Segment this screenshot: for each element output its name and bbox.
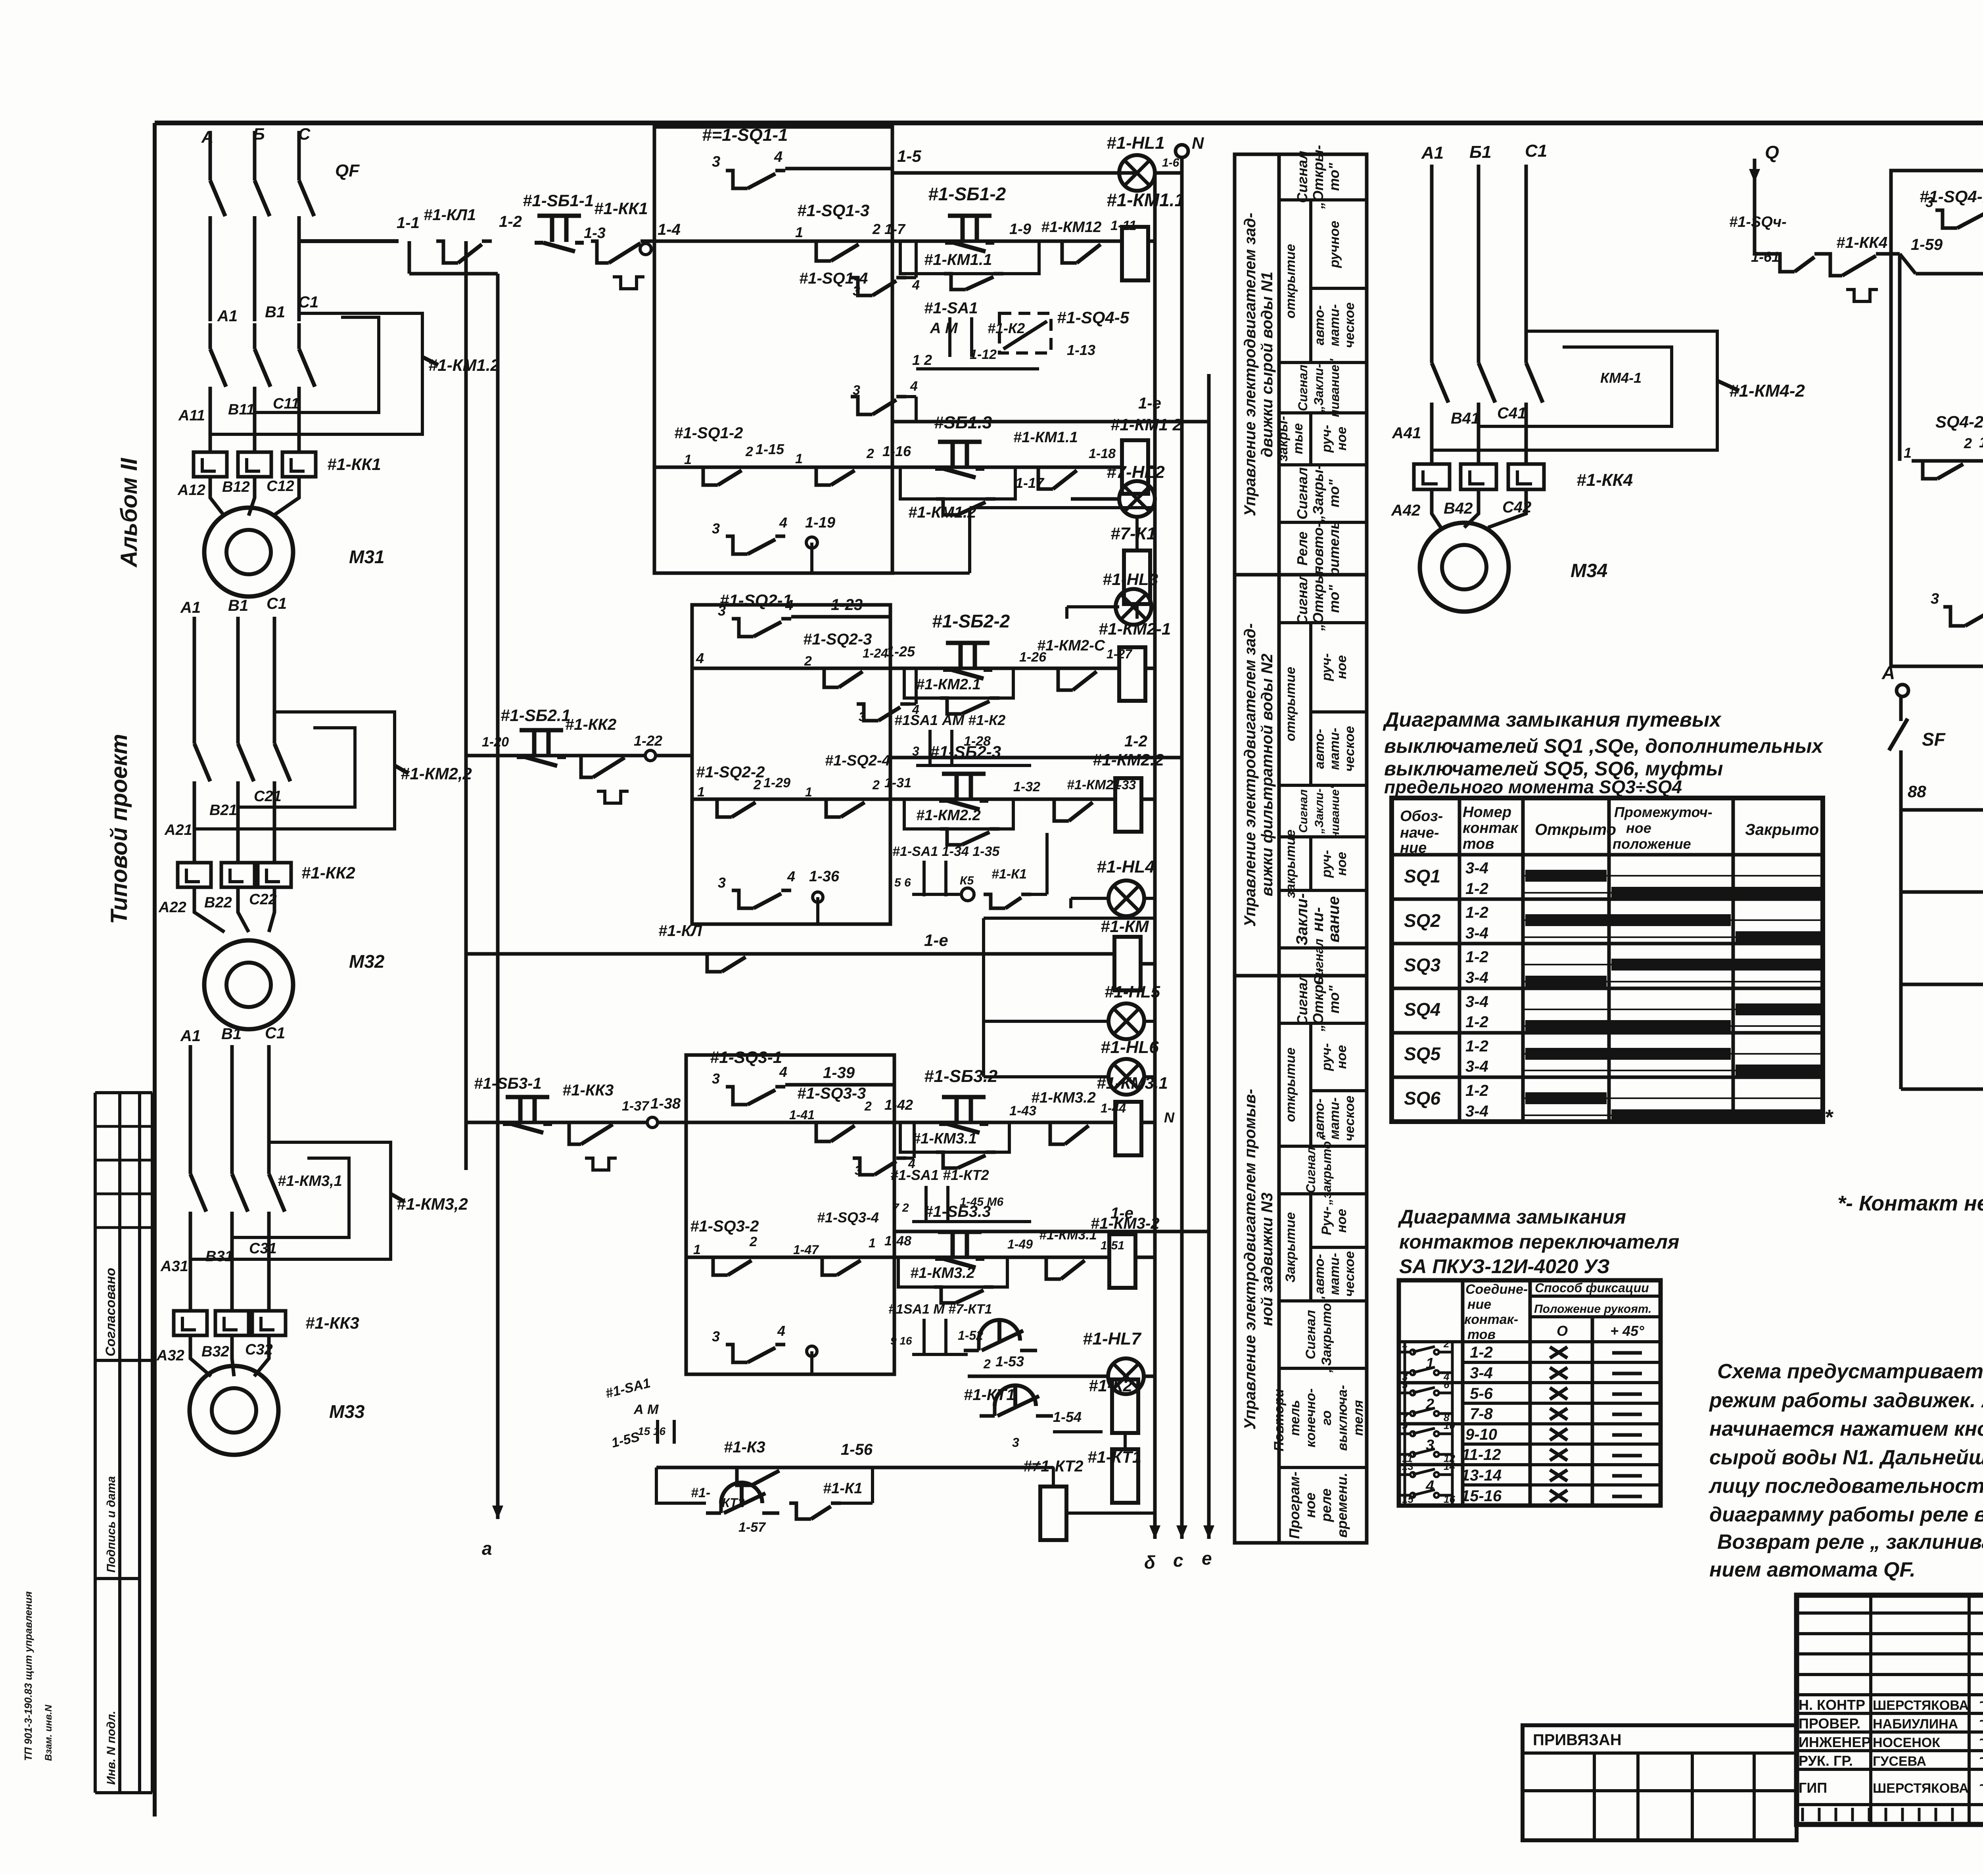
block N3 outer box: [686, 1055, 894, 1374]
svg-text:С1: С1: [267, 595, 287, 612]
svg-text:3-4: 3-4: [1470, 1364, 1493, 1382]
SA row 5-6: [1463, 1402, 1661, 1405]
lamp HL6: [1108, 1059, 1144, 1095]
svg-text:КМ4-1: КМ4-1: [1600, 370, 1642, 386]
contact SQ1-4 row: [851, 397, 873, 414]
svg-text:Соедине-: Соедине-: [1465, 1282, 1528, 1297]
svg-text:#1-КМ3.1: #1-КМ3.1: [1039, 1228, 1097, 1243]
svg-text:#1-КК1: #1-КК1: [327, 455, 381, 474]
contact KM repeater: [466, 952, 1116, 956]
svg-text:*- Контакт не используется: *- Контакт не используется: [1837, 1191, 1983, 1215]
Q feeder arrow: [1753, 159, 1757, 182]
SA row 1-2: [1463, 1361, 1661, 1364]
svg-text:то": то": [1326, 479, 1342, 508]
svg-text:С22: С22: [249, 891, 277, 908]
common line P1: [1901, 983, 1983, 986]
svg-text:*: *: [1824, 1105, 1834, 1129]
svg-text:В1: В1: [265, 303, 285, 321]
svg-text:1-19: 1-19: [805, 514, 835, 531]
svg-text:4: 4: [777, 1323, 785, 1339]
svg-text:В32: В32: [201, 1343, 229, 1360]
svg-text:РУК. ГР.: РУК. ГР.: [1799, 1753, 1853, 1769]
svg-text:Диаграмма замыкания: Диаграмма замыкания: [1398, 1206, 1626, 1228]
annotation block divider: [1235, 974, 1367, 978]
SQ bar: [1736, 931, 1820, 943]
svg-text:выключа-: выключа-: [1335, 1385, 1350, 1451]
svg-text:#1-К1: #1-К1: [823, 1480, 862, 1497]
svg-text:SQ3: SQ3: [1404, 955, 1440, 975]
svg-text:контактов переключателя: контактов переключателя: [1399, 1231, 1679, 1253]
wire left rail: [496, 274, 500, 1519]
rung N4 to node 1-59: [1900, 254, 1916, 274]
annotation cell: [1279, 946, 1367, 950]
push button SB2-3: [942, 772, 986, 776]
svg-text:#1-КТ1: #1-КТ1: [964, 1386, 1015, 1404]
svg-text:А: А: [1881, 662, 1895, 683]
svg-text:+ 45°: + 45°: [1610, 1323, 1644, 1339]
svg-text:#1-SQ2-4: #1-SQ2-4: [825, 752, 890, 769]
svg-text:10: 10: [1444, 1419, 1455, 1431]
coil KT1: [1112, 1449, 1138, 1503]
SQ row SQ1: [1392, 898, 1823, 901]
svg-text:9 16: 9 16: [890, 1335, 912, 1347]
svg-text:3: 3: [859, 710, 866, 724]
wire rung lamp HL7: [968, 1375, 1107, 1378]
annotation cell: [1279, 1192, 1367, 1195]
svg-text:1-49: 1-49: [1007, 1237, 1033, 1251]
svg-text:7 2: 7 2: [892, 1201, 909, 1214]
svg-text:руч-: руч-: [1319, 653, 1334, 681]
svg-text:6: 6: [1444, 1379, 1450, 1391]
svg-text:2 1-7: 2 1-7: [872, 221, 906, 237]
svg-text:С1: С1: [265, 1024, 285, 1042]
svg-text:13: 13: [1402, 1460, 1413, 1472]
svg-text:Возврат реле „ заклинивание ": Возврат реле „ заклинивание " осуществля…: [1717, 1531, 1983, 1554]
svg-text:2: 2: [866, 446, 874, 461]
svg-text:„Откры-: „Откры-: [1310, 145, 1326, 209]
svg-text:1-12: 1-12: [970, 347, 997, 362]
svg-text:1-9: 1-9: [1009, 221, 1031, 238]
SQ row SQ2: [1392, 942, 1823, 946]
svg-text:М32: М32: [349, 951, 385, 972]
svg-text:3: 3: [1012, 1435, 1019, 1450]
motor M31 leads: [210, 477, 224, 516]
svg-text:#1-SQ3-2: #1-SQ3-2: [690, 1218, 759, 1235]
svg-text:С1: С1: [298, 293, 318, 311]
annotation cell: [1279, 573, 1367, 576]
svg-text:SА ПКУЗ-12И-4020 УЗ: SА ПКУЗ-12И-4020 УЗ: [1399, 1255, 1610, 1278]
annotation cell: [1279, 1022, 1367, 1025]
svg-text:2: 2: [864, 1099, 872, 1113]
contact K3: [730, 1467, 752, 1485]
svg-text:1-57: 1-57: [738, 1520, 766, 1535]
svg-text:#1-КМ2.2: #1-КМ2.2: [916, 807, 981, 824]
svg-text:1-18: 1-18: [1089, 446, 1116, 461]
svg-text:3: 3: [855, 1163, 862, 1178]
svg-text:М34: М34: [1571, 560, 1607, 581]
annotation split cell: [1309, 623, 1312, 785]
svg-text:В21: В21: [209, 802, 237, 819]
rung N1-1 wire: [654, 240, 658, 243]
sheet frame top border: [155, 121, 1983, 125]
coil KM3-2: [1109, 1234, 1135, 1288]
SQ row SQ6: [1392, 1120, 1823, 1124]
svg-text:9-10: 9-10: [1465, 1426, 1497, 1443]
rung N2-1 wire: [692, 667, 1120, 670]
coil KM: [1114, 937, 1141, 990]
svg-text:О: О: [1557, 1323, 1568, 1339]
contact KT1 time: [995, 1385, 1036, 1406]
svg-text:С31: С31: [249, 1240, 277, 1257]
svg-text:ритель: ритель: [1326, 521, 1342, 577]
svg-text:1-36: 1-36: [809, 868, 840, 885]
svg-text:#1-КМ2-С: #1-КМ2-С: [1037, 637, 1105, 654]
svg-text:выключателей SQ1 ,SQе, дополни: выключателей SQ1 ,SQе, дополнительных: [1384, 735, 1824, 757]
svg-text:SQ1: SQ1: [1404, 866, 1440, 886]
svg-text:#1-SА1 #1-КТ2: #1-SА1 #1-КТ2: [890, 1167, 989, 1183]
svg-text:лицу последовательности раб: лицу последовательности работы задвижек …: [1708, 1475, 1983, 1498]
svg-text:1-2: 1-2: [1465, 1082, 1488, 1099]
svg-text:#1-КМ2.2: #1-КМ2.2: [1093, 750, 1164, 769]
svg-text:#1-SQ1-4: #1-SQ1-4: [799, 270, 868, 287]
phase wires branch 3: [189, 1045, 192, 1174]
bottom row N4: [1943, 607, 1965, 626]
contact SQ1-3b: [851, 278, 873, 295]
svg-text:#1-КМ3,1: #1-КМ3,1: [278, 1173, 342, 1189]
svg-text:#SБ1.3: #SБ1.3: [934, 413, 992, 432]
motor M33: [190, 1366, 278, 1455]
svg-text:#1-HL4: #1-HL4: [1097, 857, 1155, 877]
svg-text:4: 4: [910, 379, 918, 394]
rung N3-2 wire: [686, 1256, 1110, 1259]
svg-text:Закрыто: Закрыто: [1745, 821, 1819, 838]
svg-text:контак: контак: [1463, 820, 1519, 836]
svg-text:ческое: ческое: [1342, 303, 1357, 348]
svg-text:Сигнал: Сигнал: [1297, 789, 1310, 833]
dashed box SQ4-5: [999, 313, 1051, 353]
SA row 13-14: [1463, 1483, 1661, 1487]
svg-text:Б1: Б1: [1469, 142, 1492, 162]
rung feed N3: [466, 1121, 686, 1124]
svg-text:3: 3: [718, 875, 726, 891]
svg-text:А42: А42: [1391, 502, 1420, 519]
svg-text:С12: С12: [267, 478, 294, 495]
svg-text:А31: А31: [160, 1258, 188, 1275]
svg-text:тов: тов: [1467, 1327, 1496, 1342]
svg-text:#1-HL6: #1-HL6: [1101, 1038, 1159, 1057]
SQ bar: [1525, 914, 1731, 926]
lamp HL5: [1108, 1003, 1144, 1039]
svg-text:#1-SБ3.3: #1-SБ3.3: [924, 1203, 991, 1220]
svg-text:#1-КМ1.1: #1-КМ1.1: [1107, 190, 1185, 210]
svg-text:1: 1: [684, 452, 692, 467]
svg-text:#1-SА1: #1-SА1: [924, 299, 978, 317]
svg-text:нивание": нивание": [1329, 783, 1342, 838]
svg-text:мати-: мати-: [1327, 1097, 1342, 1139]
svg-text:11-12: 11-12: [1461, 1446, 1501, 1464]
contact KM1.2 aux: [1055, 241, 1077, 263]
svg-text:1-26: 1-26: [1019, 650, 1047, 665]
svg-text:1-37: 1-37: [622, 1099, 650, 1114]
svg-text:ИНЖЕНЕР: ИНЖЕНЕР: [1799, 1734, 1871, 1750]
thermal relay KK3: [174, 1311, 207, 1335]
svg-text:#1-КМ3.1: #1-КМ3.1: [1097, 1074, 1168, 1092]
svg-text:ПРИВЯЗАН: ПРИВЯЗАН: [1533, 1731, 1622, 1749]
svg-text:3: 3: [718, 602, 726, 619]
motor M32 leads: [194, 887, 224, 932]
svg-text:А12: А12: [177, 482, 205, 499]
rung N1-2 wire: [654, 466, 1122, 469]
svg-text:4: 4: [785, 597, 793, 613]
svg-text:НАБИУЛИНА: НАБИУЛИНА: [1873, 1717, 1958, 1732]
SQ bar: [1525, 976, 1607, 988]
rung N3-1 wire: [686, 1121, 1116, 1124]
svg-text:1-39: 1-39: [823, 1064, 855, 1082]
svg-text:КТ2: КТ2: [722, 1496, 745, 1510]
svg-text:А1: А1: [180, 1027, 201, 1045]
wire 1-e N1: [892, 420, 1209, 424]
svg-text:наче-: наче-: [1400, 825, 1439, 841]
contact KM3.2 aux: [1043, 1122, 1065, 1144]
svg-text:5: 5: [1402, 1379, 1408, 1391]
svg-text:#1-SQ2-3: #1-SQ2-3: [803, 631, 872, 648]
svg-text:М33: М33: [329, 1401, 365, 1422]
svg-text:1-5: 1-5: [897, 147, 921, 165]
SA contact group sketches: [1405, 1342, 1452, 1383]
svg-text:то": то": [1326, 163, 1342, 191]
svg-text:1-31: 1-31: [884, 775, 911, 790]
motor M32: [204, 940, 293, 1029]
svg-text:ческое: ческое: [1342, 1251, 1357, 1297]
svg-text:#1-HL1: #1-HL1: [1107, 133, 1165, 153]
svg-text:ШЕРСТЯКОВА: ШЕРСТЯКОВА: [1873, 1698, 1969, 1713]
SQ row SQ4: [1392, 1031, 1823, 1035]
push button SB2.1: [520, 728, 563, 733]
bracket box KM: [984, 917, 1155, 920]
svg-text:а: а: [482, 1538, 492, 1559]
svg-text:1-15: 1-15: [756, 441, 784, 457]
svg-text:#1-КК4: #1-КК4: [1576, 470, 1633, 490]
svg-text:#1-КЛ: #1-КЛ: [658, 922, 702, 940]
svg-text:#1-КМ3,2: #1-КМ3,2: [397, 1195, 468, 1213]
svg-text:ное: ное: [1302, 1492, 1318, 1518]
svg-text:1: 1: [1904, 445, 1912, 461]
svg-text:авто-: авто-: [1312, 1254, 1327, 1294]
contactor KM4 bracket: [1432, 331, 1717, 450]
svg-text:открытие: открытие: [1283, 1047, 1298, 1122]
thermal relay KK2: [178, 863, 211, 887]
svg-text:#1-КМ1.2: #1-КМ1.2: [908, 504, 976, 521]
svg-text:ние: ние: [1467, 1297, 1491, 1312]
lamp HL7: [1108, 1358, 1144, 1394]
common bottom line: [1901, 1088, 1983, 1091]
svg-text:#1-SQ1-2: #1-SQ1-2: [674, 424, 743, 442]
svg-text:Согласовано: Согласовано: [103, 1268, 118, 1356]
svg-text:1-56: 1-56: [841, 1441, 873, 1458]
svg-text:то": то": [1326, 585, 1342, 613]
svg-text:3: 3: [712, 1328, 720, 1345]
SQ row SQ3: [1392, 987, 1823, 990]
svg-text:ТП 901-3-190.83 щит управлени: ТП 901-3-190.83 щит управления: [22, 1591, 34, 1761]
svg-text:#1-КМ12: #1-КМ12: [1041, 219, 1101, 236]
svg-text:А М: А М: [633, 1402, 659, 1417]
svg-text:#1-КМ2,2: #1-КМ2,2: [401, 764, 472, 783]
svg-text:#1-SБ3-1: #1-SБ3-1: [474, 1075, 542, 1092]
svg-text:3: 3: [712, 153, 720, 170]
svg-text:1-2: 1-2: [499, 213, 522, 230]
contact KM3.1 aux2: [1039, 1257, 1061, 1279]
coil KM3.1: [1115, 1102, 1141, 1155]
svg-text:1-2: 1-2: [1465, 904, 1488, 921]
annotation cell: [1279, 621, 1367, 624]
svg-text:#1-КМ1 2: #1-КМ1 2: [1110, 415, 1182, 434]
svg-text:#1-КМ4-2: #1-КМ4-2: [1729, 381, 1805, 401]
svg-text:„закрыто": „закрыто": [1319, 1135, 1334, 1205]
svg-text:SQ4-2: SQ4-2: [1935, 412, 1983, 432]
svg-text:Схема предусматривает местны: Схема предусматривает местный и автомати…: [1717, 1360, 1983, 1383]
svg-text:закрытие: закрытие: [1283, 829, 1298, 898]
svg-text:N: N: [1164, 1109, 1175, 1126]
svg-text:А22: А22: [158, 899, 186, 916]
rung N2-2 wire: [692, 798, 1116, 801]
svg-text:ное: ное: [1334, 655, 1349, 679]
phase wires M34: [1430, 165, 1434, 363]
coil KM2.2: [1115, 778, 1141, 832]
svg-text:#1-SQ4-5: #1-SQ4-5: [1057, 308, 1130, 327]
svg-text:1: 1: [697, 785, 705, 800]
svg-text:контак-: контак-: [1464, 1312, 1518, 1327]
contactor KM4-1 contacts: [1432, 363, 1448, 403]
svg-text:1-2: 1-2: [1465, 1038, 1488, 1055]
svg-text:#1-КМ1.2: #1-КМ1.2: [428, 356, 500, 374]
svg-text:ное: ное: [1626, 820, 1651, 836]
svg-text:#1-КМ2-1: #1-КМ2-1: [1099, 620, 1171, 638]
phase wires branch 2: [193, 617, 196, 744]
contactor KM2.2 bracket: [194, 712, 395, 829]
contact KM2-C: [1051, 668, 1073, 690]
svg-text:ное: ное: [1334, 852, 1349, 876]
svg-text:мати-: мати-: [1327, 728, 1342, 770]
push button SB1.3: [938, 440, 982, 444]
rung N4-2 wire: [1912, 459, 1983, 463]
svg-text:~~: ~~: [1979, 1750, 1983, 1767]
svg-text:1-17: 1-17: [1015, 475, 1045, 491]
push button SB2-2: [946, 641, 990, 645]
SQ bar: [1611, 1109, 1820, 1121]
svg-text:Номер: Номер: [1463, 804, 1511, 821]
svg-text:1-59: 1-59: [1911, 236, 1943, 253]
svg-text:А41: А41: [1392, 424, 1421, 442]
svg-text:δ: δ: [1144, 1552, 1156, 1573]
svg-text:3: 3: [712, 1070, 720, 1087]
svg-text:К5: К5: [960, 874, 974, 887]
SQ row SQ5: [1392, 1076, 1823, 1079]
svg-text:С1: С1: [1525, 141, 1547, 161]
annotation cell: [1279, 1541, 1367, 1544]
svg-text:2: 2: [983, 1357, 991, 1371]
svg-text:предельного момента: предельного момента SQ3÷SQ4: [1384, 777, 1682, 797]
svg-text:1 2: 1 2: [912, 352, 932, 368]
svg-text:SF: SF: [1922, 729, 1946, 750]
svg-text:#1-К1: #1-К1: [991, 867, 1027, 882]
svg-text:нием автомата QF.: нием автомата QF.: [1709, 1558, 1916, 1581]
svg-text:А1: А1: [180, 599, 201, 616]
svg-text:А11: А11: [178, 407, 205, 424]
svg-text:Способ фиксации: Способ фиксации: [1535, 1281, 1649, 1295]
circuit breaker QF: [209, 131, 212, 180]
SQ bar: [1736, 1065, 1820, 1076]
svg-text:#1SА1 АМ #1-К2: #1SА1 АМ #1-К2: [894, 712, 1005, 728]
svg-text:Руч-: Руч-: [1319, 1207, 1334, 1235]
lamp HL4: [1108, 880, 1144, 916]
svg-text:нивание": нивание": [1327, 358, 1342, 417]
signature smudge row: [1801, 1808, 1804, 1821]
SQ bar: [1525, 1092, 1607, 1104]
thermal relay KK4: [1414, 464, 1450, 489]
svg-text:1-6: 1-6: [1162, 156, 1179, 169]
svg-text:SQ6: SQ6: [1404, 1088, 1440, 1109]
svg-text:Управление электродвигателем п: Управление электродвигателем промыв-: [1241, 1089, 1259, 1429]
svg-text:~~: ~~: [1979, 1713, 1983, 1730]
svg-text:диаграмму работы реле време: диаграмму работы реле времени КТ.: [1709, 1503, 1983, 1526]
thermal contact KK2 aux: [575, 756, 593, 777]
common line P2: [1901, 890, 1983, 894]
svg-text:тые: тые: [1291, 423, 1306, 454]
svg-text:вание: вание: [1325, 896, 1342, 943]
svg-text:QF: QF: [335, 161, 360, 180]
svg-text:1-29: 1-29: [763, 775, 790, 790]
svg-text:#1-КК2: #1-КК2: [301, 863, 355, 882]
contact SQ mid: [809, 467, 831, 485]
wire rail N: [1153, 173, 1157, 1535]
annotation split cell: [1309, 837, 1312, 890]
svg-text:7-8: 7-8: [1470, 1405, 1493, 1423]
svg-text:Q: Q: [1765, 142, 1779, 163]
svg-text:3: 3: [1925, 194, 1933, 210]
svg-text:Програм-: Програм-: [1286, 1471, 1302, 1539]
svg-text:ной задвижки N3: ной задвижки N3: [1258, 1193, 1276, 1326]
bottom rung N3 wire: [656, 1466, 1039, 1469]
block N1 outer box: [654, 127, 892, 573]
limit switch bottom N3: [726, 1345, 748, 1362]
svg-text:ни-: ни-: [1309, 907, 1327, 932]
svg-text:#7-HL2: #7-HL2: [1107, 462, 1165, 482]
thermal KK4 aux contact: [1824, 254, 1842, 276]
svg-text:Диаграмма замыкания путевы: Диаграмма замыкания путевых: [1383, 708, 1722, 731]
svg-text:1-3: 1-3: [584, 225, 606, 242]
svg-text:1-47: 1-47: [793, 1243, 819, 1257]
svg-text:Обоз-: Обоз-: [1400, 808, 1443, 825]
svg-text:режим работы задвижек. Автом: режим работы задвижек. Автоматический ци…: [1709, 1389, 1983, 1412]
svg-text:#1-SА1 1-34 1-35: #1-SА1 1-34 1-35: [892, 844, 1000, 859]
SQ bar: [1611, 959, 1820, 971]
thermal relay KK1: [209, 438, 212, 452]
svg-text:Закрытие: Закрытие: [1283, 1212, 1298, 1283]
svg-text:движки сырой воды N1: движки сырой воды N1: [1258, 272, 1276, 457]
svg-text:#1-КТ1: #1-КТ1: [1087, 1448, 1141, 1466]
svg-text:сырой воды N1. Дальнейшую: сырой воды N1. Дальнейшую работу задвиже…: [1709, 1446, 1983, 1469]
svg-text:9: 9: [1402, 1419, 1408, 1431]
common line 0: [1901, 808, 1983, 812]
push button SB3-1: [506, 1095, 549, 1099]
motor M33 leads: [190, 1335, 211, 1376]
svg-text:~~: ~~: [1979, 1732, 1983, 1748]
svg-text:В12: В12: [222, 479, 250, 495]
svg-text:1-53: 1-53: [995, 1353, 1024, 1370]
contact KM2 aux: [1047, 799, 1069, 821]
contactor KM1.2 main contacts: [209, 323, 212, 349]
svg-text:5 6: 5 6: [894, 876, 911, 889]
